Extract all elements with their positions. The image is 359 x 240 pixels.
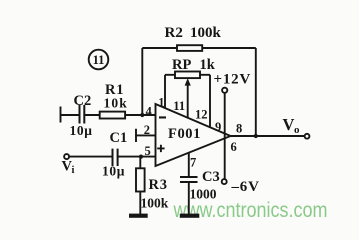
svg-text:C2: C2 [74, 93, 92, 109]
node: feedback/output junction [254, 134, 258, 138]
wire: supply vertical through pins 9 and 6 [224, 93, 226, 179]
wire: input top branch (C2-R1 line) [61, 107, 156, 123]
terminal -6V [222, 179, 227, 184]
svg-text:www.cntronics.com: www.cntronics.com [173, 199, 328, 222]
svg-text:7: 7 [190, 155, 196, 169]
ground (below R3) [129, 214, 148, 218]
svg-text:V: V [283, 115, 295, 134]
op-amp U1 F001 triangle [156, 104, 231, 166]
svg-text:F001: F001 [168, 126, 201, 142]
svg-text:R2: R2 [165, 25, 183, 41]
wire: R2 top line [142, 47, 256, 49]
svg-text:12: 12 [195, 107, 208, 121]
svg-text:100k: 100k [141, 196, 169, 211]
node: pin 5 / R3 junction [139, 155, 143, 159]
capacitor C3 [180, 177, 198, 182]
svg-text:1000: 1000 [190, 186, 217, 201]
label Vo [283, 115, 301, 136]
wire: C3 to ground [188, 182, 190, 214]
wire: Vi input line to pin 5 [69, 156, 155, 158]
svg-text:10μ: 10μ [70, 123, 93, 138]
svg-text:o: o [294, 124, 300, 136]
svg-text:–6V: –6V [231, 179, 260, 195]
wire: output line pin 8 to Vo [231, 135, 305, 137]
svg-text:C3: C3 [202, 169, 220, 185]
minus sign (inverting input) [159, 116, 166, 118]
label Vi [62, 159, 75, 176]
svg-text:8: 8 [236, 122, 242, 136]
svg-text:2: 2 [144, 123, 150, 137]
resistor R1 [100, 112, 125, 119]
svg-text:10μ: 10μ [102, 164, 125, 179]
wire: pin 7 lead [188, 153, 190, 177]
resistor R2 [177, 45, 202, 51]
svg-text:4: 4 [146, 104, 153, 118]
node: junction of R1, feedback and pin 4 [140, 113, 144, 117]
terminal +12V [222, 88, 227, 93]
capacitor C1 [113, 149, 118, 166]
potentiometer RP [165, 72, 210, 79]
capacitor C2 [80, 105, 85, 124]
figure number circle 11 [89, 50, 109, 70]
svg-text:RP: RP [172, 57, 191, 73]
terminal Vi [64, 154, 69, 159]
wire: RP right leg to pin 12 [209, 75, 211, 128]
wire: feedback vertical to R2 [141, 48, 143, 115]
svg-text:C1: C1 [110, 130, 128, 146]
watermark www.cntronics.com [173, 199, 328, 222]
svg-text:1: 1 [158, 96, 164, 110]
wire: RP wiper arrow to pin 11 [185, 78, 191, 118]
plus sign (non-inverting input) [157, 145, 164, 152]
svg-text:10k: 10k [104, 96, 128, 111]
svg-text:11: 11 [93, 53, 105, 67]
svg-text:6: 6 [231, 140, 237, 154]
ground (below C3) [180, 214, 200, 218]
wire: RP left leg to pin 1 [164, 75, 166, 109]
resistor R3 [136, 157, 145, 214]
svg-text:i: i [72, 165, 75, 176]
svg-text:11: 11 [173, 99, 185, 113]
svg-text:9: 9 [215, 120, 221, 134]
wire: pin 2 stub with end bar [136, 129, 156, 142]
svg-text:+12V: +12V [214, 71, 252, 87]
svg-text:R3: R3 [149, 177, 168, 193]
svg-text:100k: 100k [190, 25, 222, 41]
svg-text:5: 5 [145, 144, 151, 158]
wire: R2 right vertical down to output [255, 48, 257, 136]
terminal Vo [305, 134, 310, 139]
